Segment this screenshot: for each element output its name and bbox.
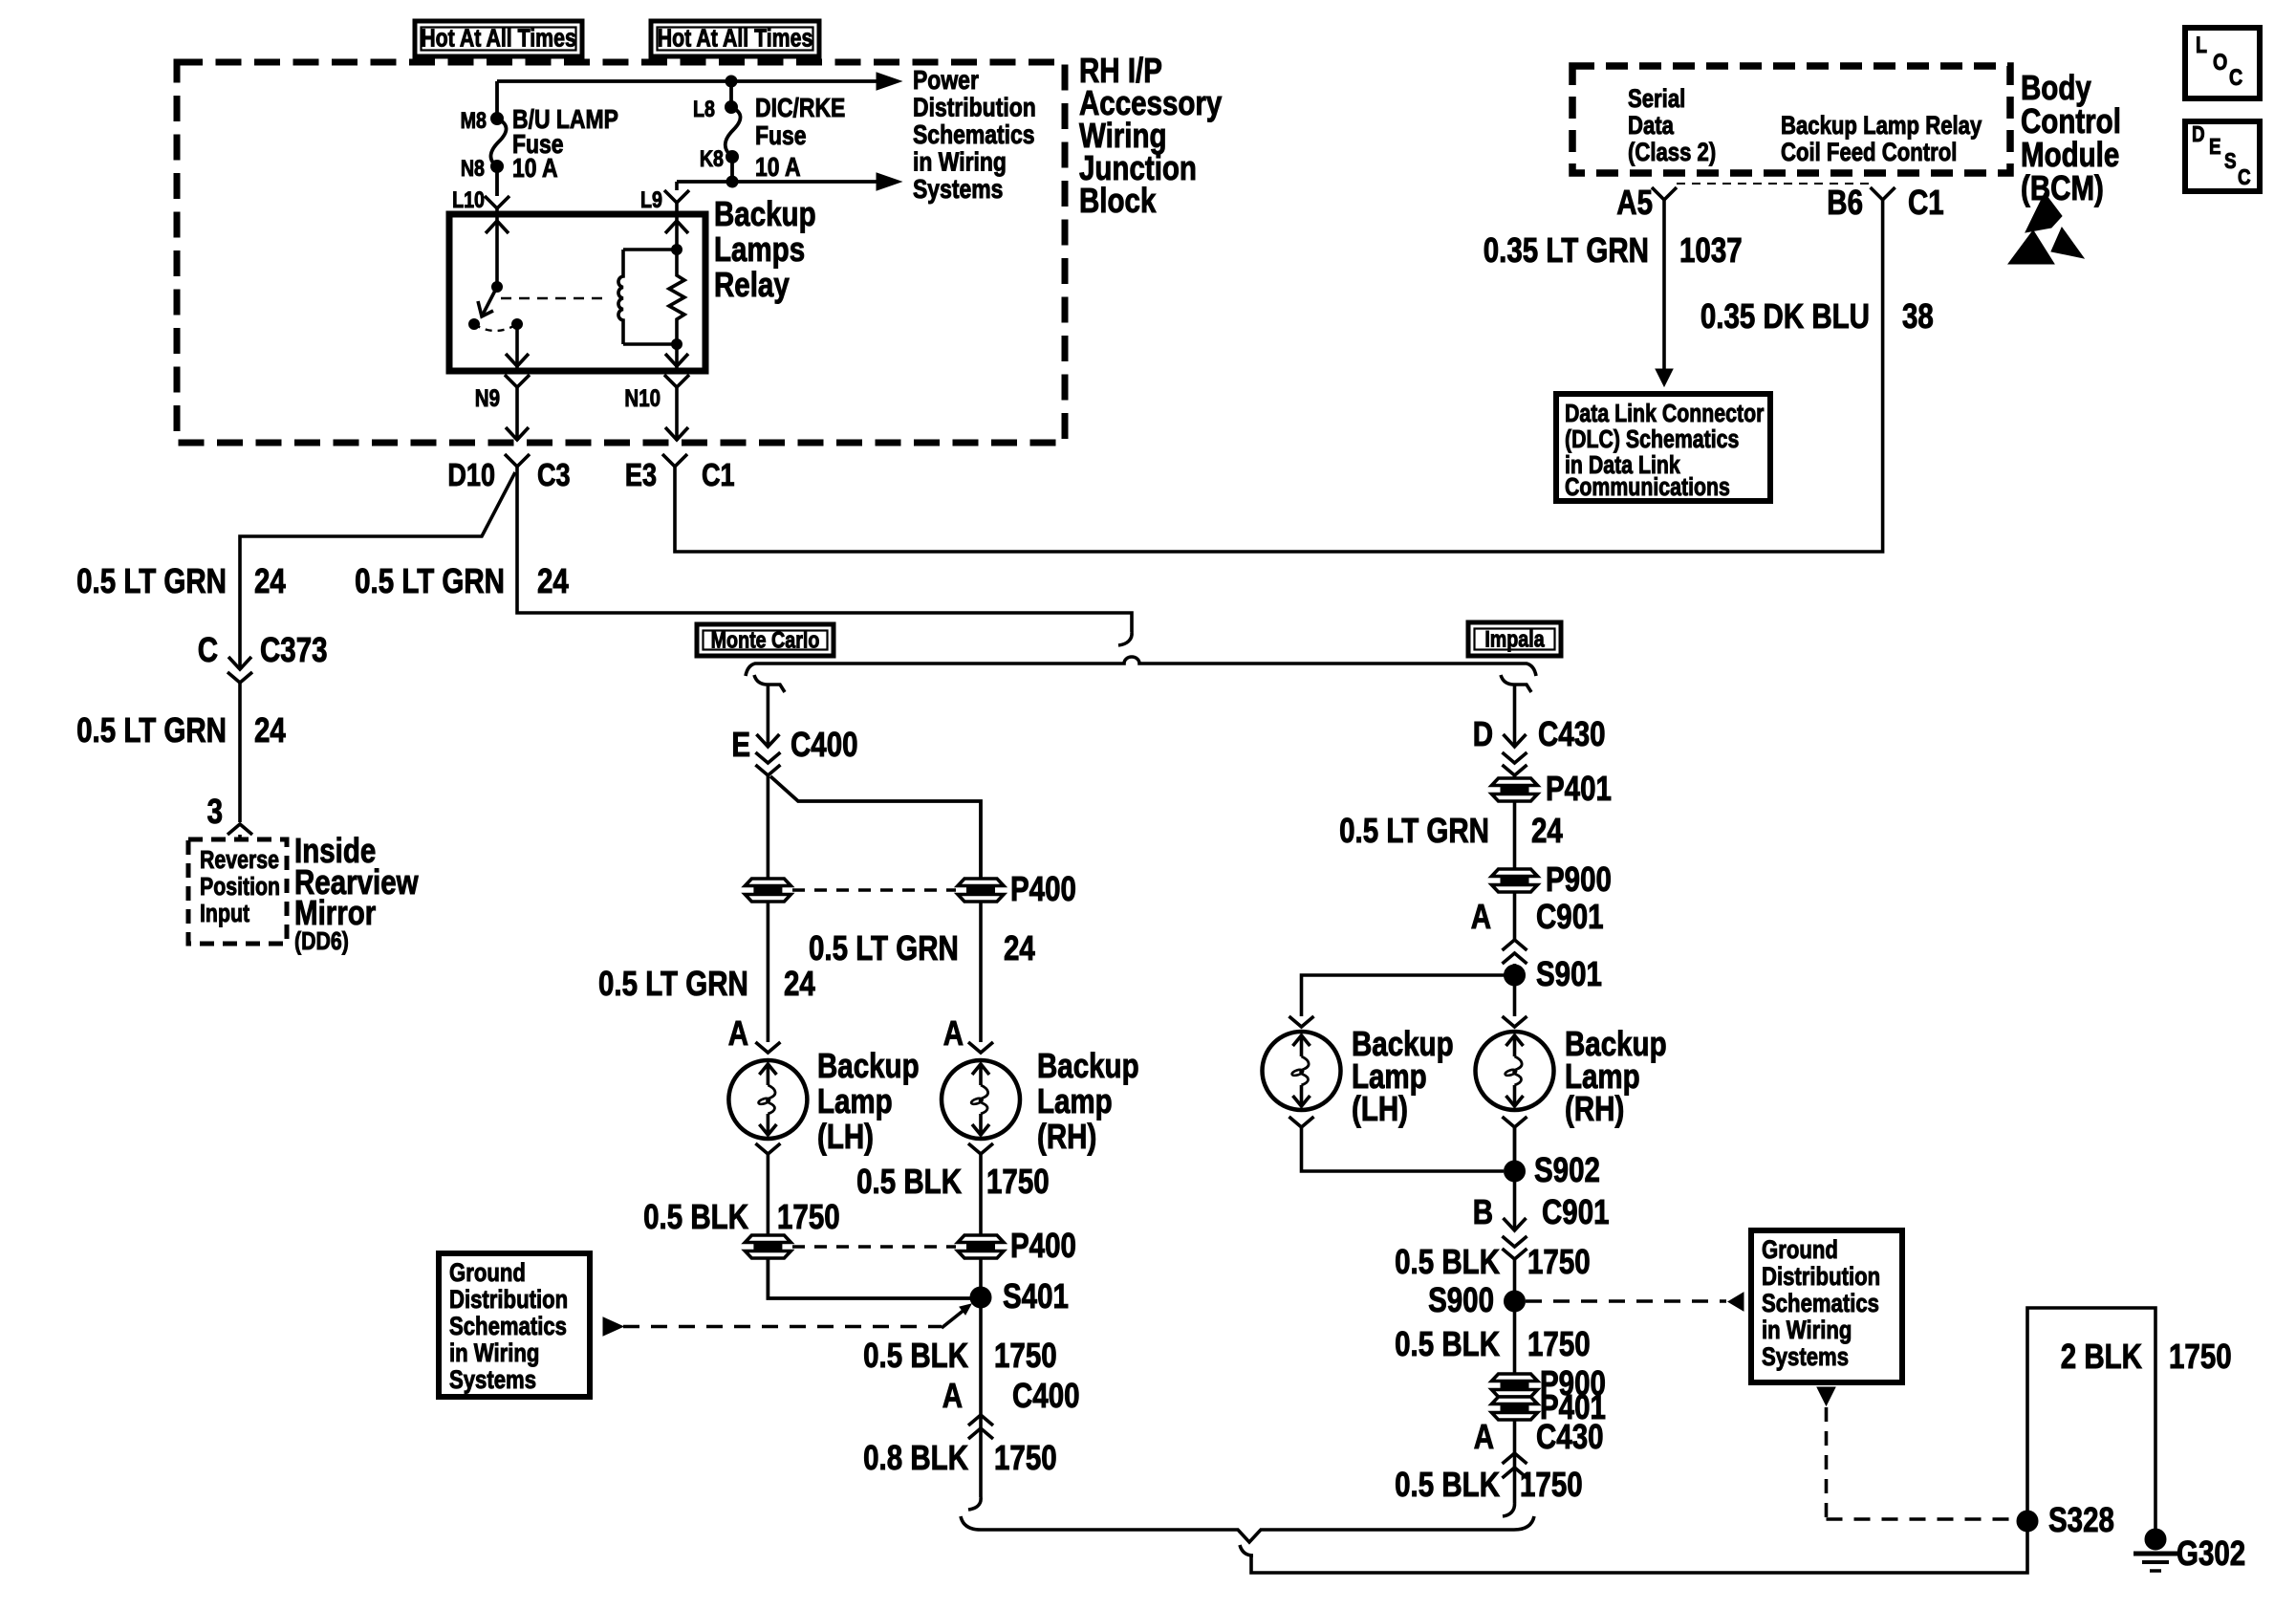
splice: S902	[1505, 1161, 1526, 1182]
svg-text:C400: C400	[791, 725, 858, 763]
label box: Monte Carlo	[697, 624, 834, 656]
label: P400 (lower)	[1010, 1226, 1076, 1264]
label: M8	[461, 107, 487, 133]
label: 0.5 BLK (MC RH)	[856, 1162, 962, 1200]
wire: S902 to C901 B	[1504, 1182, 1527, 1230]
wire: S900 to P900	[1513, 1312, 1517, 1374]
wire: C400 E split to RH branch	[770, 776, 981, 879]
label: 24 (mirror branch)	[254, 561, 286, 599]
label: C430	[1538, 714, 1606, 752]
svg-text:L: L	[2196, 32, 2207, 57]
svg-text:1750: 1750	[994, 1438, 1057, 1476]
label: 0.5 LT GRN (mirror branch)	[76, 561, 227, 599]
label: 24 (MC LH)	[784, 964, 815, 1002]
svg-text:C: C	[2229, 64, 2242, 90]
svg-text:Schematics: Schematics	[1762, 1290, 1879, 1318]
svg-text:N9: N9	[475, 384, 500, 411]
svg-text:Input: Input	[200, 900, 249, 928]
label: P401 (ground)	[1540, 1387, 1606, 1425]
label: E3	[625, 459, 657, 493]
svg-text:S328: S328	[2048, 1500, 2114, 1538]
wire: C430 A to bottom break	[1513, 1420, 1517, 1503]
relay switch contact (left, NO)	[469, 319, 480, 330]
svg-text:Ground: Ground	[449, 1259, 526, 1288]
svg-text:Schematics: Schematics	[449, 1313, 567, 1341]
svg-text:C901: C901	[1542, 1192, 1610, 1230]
label: A (C901)	[1471, 897, 1491, 935]
BCM: Body Control Module (dashed box)	[1572, 66, 2010, 173]
label: G302	[2177, 1534, 2245, 1572]
reference box: Ground Distribution Schematics in Wiring Systems (left)	[439, 1253, 590, 1397]
wire: to C430 pin D	[1504, 685, 1527, 747]
svg-text:A5: A5	[1616, 183, 1653, 221]
wire: E3/C1 to BCM C1 pin (coil feed control)	[675, 200, 1883, 552]
connector: C430 A (up chevrons)	[1503, 1453, 1527, 1478]
svg-text:0.5 LT GRN: 0.5 LT GRN	[809, 928, 959, 967]
dashed pair link: P400 lower	[792, 1245, 956, 1249]
wire: to C400 pin E	[756, 685, 779, 747]
grommet P400 (LH lower)	[745, 1235, 791, 1258]
label: 1750 (2 BLK)	[2169, 1337, 2232, 1375]
junction block: RH I/P Accessory Wiring Junction Block (dashed outline)	[177, 62, 1065, 443]
svg-text:0.8 BLK: 0.8 BLK	[863, 1438, 968, 1476]
svg-text:0.5 LT GRN: 0.5 LT GRN	[355, 561, 505, 599]
relay coil suppression resistor	[669, 250, 684, 344]
connector fork: B6 / C1	[1871, 187, 1895, 200]
svg-text:S902: S902	[1534, 1150, 1600, 1188]
svg-text:0.5 BLK: 0.5 BLK	[1395, 1242, 1500, 1280]
svg-text:Communications: Communications	[1565, 473, 1730, 502]
label: P900 (ground)	[1540, 1363, 1606, 1402]
svg-text:Reverse: Reverse	[200, 846, 279, 875]
label: Data Link Connector (DLC) Schematics in Data Link Communications	[1565, 400, 1764, 502]
svg-text:L9: L9	[640, 186, 662, 212]
svg-text:C1: C1	[1908, 183, 1944, 221]
label: K8	[700, 145, 724, 171]
svg-text:(RH): (RH)	[1037, 1117, 1096, 1155]
label: C1	[702, 459, 735, 493]
svg-text:C430: C430	[1536, 1417, 1604, 1455]
wire: C430 to P401	[1513, 775, 1517, 778]
label: pin 3	[207, 792, 223, 830]
svg-text:Backup: Backup	[1037, 1046, 1139, 1084]
label: 0.5 BLK (above S900)	[1395, 1242, 1500, 1280]
svg-text:L10: L10	[452, 186, 485, 212]
arrow to Power Distribution Schematics (lower)	[877, 173, 901, 190]
svg-text:P400: P400	[1010, 1226, 1076, 1264]
label: A (MC LH pin)	[728, 1013, 748, 1052]
symbol: ESD sensitive device	[2008, 193, 2084, 264]
svg-text:Impala: Impala	[1484, 626, 1545, 652]
svg-text:Hot At All Times: Hot At All Times	[658, 25, 813, 54]
arrow to Power Distribution Schematics (top)	[877, 73, 901, 90]
wire break: split feeder hook	[1118, 632, 1132, 645]
svg-text:(RH): (RH)	[1565, 1089, 1624, 1127]
wire: merged ground to G302	[1251, 1308, 2155, 1573]
svg-text:Fuse: Fuse	[755, 121, 807, 151]
label box: DESC	[2185, 121, 2260, 191]
wire: S901 branch to Impala LH lamp	[1302, 975, 1515, 1016]
lamp: Backup Lamp (LH) Impala	[1263, 1032, 1341, 1110]
label: L10	[452, 186, 485, 212]
svg-text:A: A	[943, 1013, 964, 1052]
svg-text:A: A	[942, 1376, 963, 1414]
label: 0.35 LT GRN	[1484, 230, 1649, 269]
label: P900 (feed)	[1546, 859, 1612, 898]
svg-text:0.5 BLK: 0.5 BLK	[643, 1197, 748, 1235]
svg-text:S900: S900	[1428, 1280, 1494, 1318]
svg-text:(LH): (LH)	[817, 1117, 874, 1155]
dashed reference line to S328	[1827, 1407, 2016, 1519]
arrow: serial data to DLC box	[1656, 369, 1673, 386]
connector chevron: LH lamp ground pin	[755, 1143, 780, 1154]
label: 1750 (Impala bottom)	[1520, 1465, 1583, 1503]
svg-text:(BCM): (BCM)	[2021, 168, 2104, 207]
label: L9	[640, 186, 662, 212]
label: 2 BLK	[2061, 1337, 2142, 1375]
label: A (C430 ground)	[1474, 1417, 1494, 1455]
label: 0.5 BLK (Impala bottom)	[1395, 1465, 1500, 1503]
svg-text:N10: N10	[624, 384, 661, 411]
connector fork: L10	[485, 196, 509, 214]
label: S901	[1536, 954, 1602, 992]
label: 0.5 BLK (below S900)	[1395, 1324, 1500, 1362]
svg-text:D: D	[2192, 122, 2205, 146]
label: 0.8 BLK	[863, 1438, 968, 1476]
label: Backup Lamp (LH) Impala	[1352, 1024, 1454, 1127]
svg-text:A: A	[1471, 897, 1491, 935]
label: C	[198, 630, 218, 668]
connector chevron: LH lamp pin A	[755, 1042, 780, 1053]
svg-text:1750: 1750	[2169, 1337, 2232, 1375]
svg-text:0.5 LT GRN: 0.5 LT GRN	[1339, 811, 1489, 849]
svg-text:3: 3	[207, 792, 223, 830]
label: Ground Distribution Schematics in Wiring Systems (right)	[1762, 1236, 1880, 1372]
label: N8	[461, 155, 485, 181]
lamp: Backup Lamp (RH) Monte Carlo	[942, 1060, 1020, 1139]
svg-text:Monte Carlo: Monte Carlo	[711, 627, 820, 653]
wire: RH ground leg through S401	[979, 1258, 983, 1497]
component box: Reverse Position Input (dashed)	[188, 839, 287, 944]
svg-text:Distribution: Distribution	[1762, 1263, 1880, 1292]
label: S900	[1428, 1280, 1494, 1318]
svg-text:10 A: 10 A	[755, 153, 801, 183]
svg-text:M8: M8	[461, 107, 487, 133]
grommet P400 (RH upper)	[958, 879, 1004, 902]
svg-text:L8: L8	[693, 96, 715, 121]
svg-text:C: C	[2238, 165, 2251, 189]
wire: coil/resistor bottom link	[623, 339, 682, 350]
svg-text:D10: D10	[447, 459, 495, 493]
svg-text:1750: 1750	[1527, 1324, 1591, 1362]
connector fork: E3 (C1)	[662, 454, 687, 467]
svg-text:24: 24	[1004, 928, 1035, 967]
label: C901 (B)	[1542, 1192, 1610, 1230]
label: A (MC RH pin)	[943, 1013, 964, 1052]
label: 1037	[1679, 230, 1743, 269]
wire: D10/C3 down and across to vehicle split	[517, 467, 1132, 632]
label: Body Control Module (BCM)	[2021, 68, 2121, 207]
label: E	[731, 725, 750, 763]
svg-text:24: 24	[1531, 811, 1563, 849]
connector chevron: Impala LH lamp ground	[1289, 1117, 1314, 1127]
connector bracket: top of Impala feed	[1501, 675, 1531, 692]
connector: C430 (chevrons)	[1503, 752, 1527, 775]
svg-text:Backup Lamp Relay: Backup Lamp Relay	[1781, 112, 1982, 141]
svg-text:P900: P900	[1546, 859, 1612, 898]
grommet P401 (Impala feed)	[1492, 778, 1538, 801]
connector: C901 B (chevrons)	[1503, 1236, 1527, 1259]
label box: Hot At All Times (right)	[651, 21, 819, 56]
connector fork: N10	[664, 375, 689, 387]
wire: fuse K8 to lower bus	[730, 157, 734, 182]
grommet P401 (Impala ground)	[1492, 1397, 1538, 1420]
label box: Impala	[1468, 622, 1561, 656]
label: N9	[475, 384, 500, 411]
label: 1750 (MC RH)	[986, 1162, 1050, 1200]
svg-text:0.5 BLK: 0.5 BLK	[1395, 1465, 1500, 1503]
splice: S401	[970, 1287, 991, 1308]
svg-text:S: S	[2224, 149, 2237, 173]
svg-text:Backup: Backup	[714, 194, 816, 232]
label: 0.5 BLK (MC LH)	[643, 1197, 748, 1235]
svg-text:Systems: Systems	[913, 175, 1003, 205]
label: C3	[537, 459, 571, 493]
label: D10	[447, 459, 495, 493]
label: C400	[791, 725, 858, 763]
splice: S901	[1505, 965, 1526, 986]
connector chevron: Impala LH lamp feed	[1289, 1016, 1314, 1027]
svg-text:Data: Data	[1628, 112, 1674, 141]
svg-text:E: E	[731, 725, 750, 763]
svg-text:P400: P400	[1010, 869, 1076, 907]
label box: LOC	[2185, 28, 2260, 98]
svg-text:24: 24	[537, 561, 569, 599]
svg-text:in Wiring: in Wiring	[913, 147, 1007, 177]
label: Ground Distribution Schematics in Wiring Systems (left)	[449, 1259, 568, 1395]
svg-text:24: 24	[784, 964, 815, 1002]
svg-text:Systems: Systems	[449, 1366, 536, 1395]
label: C901 (A)	[1536, 897, 1604, 935]
arrow: ground reference pointer (down from right box)	[1817, 1387, 1835, 1405]
svg-text:C3: C3	[537, 459, 571, 493]
wire: Impala LH lamp to splice S902	[1302, 1127, 1505, 1171]
svg-text:C430: C430	[1538, 714, 1606, 752]
splice: S900	[1505, 1291, 1526, 1312]
connector chevron: RH lamp ground pin	[968, 1143, 993, 1154]
ground: G302	[2134, 1529, 2177, 1571]
label: 0.5 LT GRN (MC RH)	[809, 928, 959, 967]
label: S902	[1534, 1150, 1600, 1188]
label: C430 (ground)	[1536, 1417, 1604, 1455]
connector fork: N9	[505, 375, 530, 387]
label: P400 (upper)	[1010, 869, 1076, 907]
reference box: Data Link Connector (DLC) Schematics	[1556, 394, 1770, 501]
wire: P400 to LH lamp	[767, 902, 770, 1042]
svg-text:1750: 1750	[986, 1162, 1050, 1200]
svg-text:10 A: 10 A	[512, 154, 558, 184]
label: B	[1473, 1192, 1493, 1230]
label: 0.5 LT GRN (Impala)	[1339, 811, 1489, 849]
wire: D10 branch to inside rearview mirror	[240, 472, 515, 642]
wire: bus drop to B/U LAMP fuse pin M8	[495, 81, 499, 119]
connector line: BCM harness connector (thin dashed)	[1677, 183, 1870, 185]
wire: RH lamp to P400 lower	[979, 1154, 983, 1235]
svg-text:0.5 BLK: 0.5 BLK	[856, 1162, 962, 1200]
connector: C400 A (up chevrons)	[968, 1415, 993, 1439]
wire break: Impala ground drop	[1503, 1503, 1515, 1516]
label: Backup Lamps Relay	[714, 194, 816, 303]
svg-text:(DD6): (DD6)	[294, 927, 349, 956]
svg-text:N8: N8	[461, 155, 485, 181]
connector chevron: Impala RH lamp feed	[1503, 1016, 1527, 1027]
svg-text:S401: S401	[1003, 1276, 1069, 1315]
svg-text:Systems: Systems	[1762, 1343, 1849, 1372]
label: 24 (below C373)	[254, 710, 286, 749]
svg-text:in Wiring: in Wiring	[1762, 1316, 1852, 1345]
svg-text:E3: E3	[625, 459, 657, 493]
label: 0.5 BLK (below S401)	[863, 1336, 968, 1374]
wire: N10 to junction block edge	[665, 387, 688, 441]
svg-text:A: A	[1474, 1417, 1494, 1455]
arrow: ground reference pointer (left box)	[603, 1317, 623, 1336]
label: Backup Lamp (RH) Impala	[1565, 1024, 1667, 1127]
label box: Hot At All Times (left)	[415, 21, 582, 56]
svg-text:Coil Feed Control: Coil Feed Control	[1781, 139, 1957, 167]
svg-text:Block: Block	[1079, 181, 1157, 219]
wire: relay switch output to N9	[506, 324, 529, 371]
wire: N9 to junction block edge	[506, 387, 529, 441]
svg-text:C373: C373	[260, 630, 328, 668]
svg-text:E: E	[2209, 135, 2221, 159]
label: Serial Data (Class 2)	[1628, 85, 1716, 167]
svg-text:2 BLK: 2 BLK	[2061, 1337, 2142, 1375]
label: D	[1473, 714, 1493, 752]
relay: dashed actuation link	[501, 297, 602, 299]
label: A5	[1616, 183, 1653, 221]
svg-text:38: 38	[1902, 296, 1934, 335]
label: N10	[624, 384, 661, 411]
connector fork: L9	[664, 182, 689, 214]
label: 0.5 LT GRN (C3 branch)	[355, 561, 505, 599]
label: Inside Rearview Mirror (DD6)	[294, 831, 419, 955]
label: Backup Lamp Relay Coil Feed Control	[1781, 112, 1982, 167]
label: 0.5 LT GRN (MC LH)	[598, 964, 748, 1002]
connector chevron: Impala RH lamp ground	[1503, 1117, 1527, 1127]
connector fork: A5	[1652, 187, 1677, 200]
wire: relay coil feed (from L9)	[665, 214, 688, 250]
wire: C373 to mirror pin 3	[238, 683, 242, 822]
svg-text:Lamp: Lamp	[1037, 1081, 1113, 1120]
relay K: Backup Lamps Relay (box)	[449, 214, 705, 371]
label: 24 (C3 branch)	[537, 561, 569, 599]
wire: C901 B to S900	[1513, 1259, 1517, 1301]
connector: C400 (chevron)	[755, 752, 780, 775]
label: 1750 (MC LH)	[777, 1197, 840, 1235]
svg-text:(LH): (LH)	[1352, 1089, 1408, 1127]
arrow: ground reference pointer (right box)	[1728, 1293, 1744, 1311]
svg-text:S901: S901	[1536, 954, 1602, 992]
relay switch: common pivot	[492, 282, 503, 293]
grommet P900 (Impala ground)	[1492, 1374, 1538, 1397]
fuse: DIC/RKE Fuse 10 A (pins L8/K8)	[726, 101, 741, 163]
label: 24 (MC RH)	[1004, 928, 1035, 967]
fuse: B/U LAMP Fuse 10 A (pins M8/N8)	[490, 113, 506, 173]
svg-text:Distribution: Distribution	[449, 1286, 568, 1315]
wire: fuse N8 to relay pin L10	[495, 166, 499, 196]
svg-text:Hot At All Times: Hot At All Times	[421, 25, 576, 54]
label: 1750 (above S900)	[1527, 1242, 1591, 1280]
svg-text:Backup: Backup	[817, 1046, 920, 1084]
label: 1750 (below S900)	[1527, 1324, 1591, 1362]
relay switch arm (arrow)	[478, 287, 497, 316]
label: Backup Lamp (RH)	[1037, 1046, 1139, 1155]
svg-text:1750: 1750	[994, 1336, 1057, 1374]
wire: LH ground leg to splice S401	[768, 1258, 971, 1298]
label: 0.5 LT GRN (below C373)	[76, 710, 227, 749]
label: Reverse Position Input	[200, 846, 280, 928]
label: B/U LAMP Fuse 10 A	[512, 105, 618, 184]
svg-text:Mirror: Mirror	[294, 893, 376, 931]
wire: Impala RH lamp to splice S902	[1513, 1127, 1517, 1171]
dashed reference line to S401	[623, 1304, 971, 1328]
svg-text:0.35 LT GRN: 0.35 LT GRN	[1484, 230, 1649, 269]
svg-text:C901: C901	[1536, 897, 1604, 935]
wire break: merged ground hook	[1240, 1545, 1253, 1556]
lamp: Backup Lamp (LH) Monte Carlo	[728, 1060, 807, 1139]
wire: P900 to C901 A	[1513, 892, 1517, 940]
wire: lower bus to Power Distribution	[677, 176, 877, 187]
svg-text:P401: P401	[1546, 769, 1612, 807]
grommet P900 (Impala feed)	[1492, 869, 1538, 892]
label: C373	[260, 630, 328, 668]
svg-text:Position: Position	[200, 873, 280, 902]
node: bus tap to DIC/RKE fuse	[726, 76, 737, 87]
svg-text:0.5 BLK: 0.5 BLK	[1395, 1324, 1500, 1362]
grommet P400 (RH lower)	[958, 1235, 1004, 1258]
label: S401	[1003, 1276, 1069, 1315]
wire: P401 to P900	[1513, 801, 1517, 868]
wire: ground merge brace (Monte Carlo + Impala)	[961, 1516, 1534, 1542]
label: 1750 (below S401)	[994, 1336, 1057, 1374]
label: P401 (feed)	[1546, 769, 1612, 807]
grommet P400 (LH upper)	[745, 879, 791, 902]
wire break: Monte Carlo ground drop	[968, 1497, 981, 1510]
svg-text:Lamps: Lamps	[714, 229, 805, 268]
label: RH I/P Accessory Wiring Junction Block	[1079, 51, 1223, 219]
wire: relay switch feed (from L10)	[486, 214, 509, 287]
wire: vehicle split brace (Monte Carlo / Impala)	[746, 657, 1536, 676]
svg-text:(Class 2): (Class 2)	[1628, 139, 1716, 167]
label: Power Distribution Schematics in Wiring Systems	[913, 66, 1036, 205]
svg-text:0.5 LT GRN: 0.5 LT GRN	[76, 561, 227, 599]
svg-text:Lamp: Lamp	[817, 1081, 893, 1120]
svg-text:1750: 1750	[777, 1197, 840, 1235]
dashed reference line from S900	[1526, 1299, 1726, 1303]
label: 0.35 DK BLU	[1700, 296, 1870, 335]
connector: C901 A (up chevrons)	[1503, 940, 1527, 964]
svg-text:Power: Power	[913, 66, 979, 96]
svg-text:(DLC) Schematics: (DLC) Schematics	[1565, 425, 1739, 454]
svg-text:0.5 LT GRN: 0.5 LT GRN	[598, 964, 748, 1002]
wire: coil/resistor top link	[623, 245, 682, 255]
connector fork: D10 (C3)	[505, 454, 530, 467]
label: S328	[2048, 1500, 2114, 1538]
label: 1750 (0.8 BLK)	[994, 1438, 1057, 1476]
wire: P400 to RH lamp	[979, 902, 983, 1042]
svg-text:C400: C400	[1012, 1376, 1080, 1414]
svg-text:Ground: Ground	[1762, 1236, 1838, 1265]
